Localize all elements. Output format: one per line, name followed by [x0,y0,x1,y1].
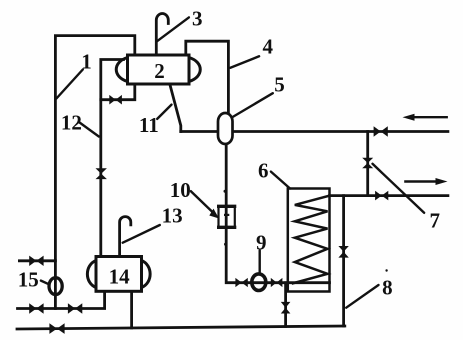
svg-text:5: 5 [274,72,285,96]
svg-text:8: 8 [382,276,393,300]
svg-text:13: 13 [162,204,183,228]
svg-text:1: 1 [81,50,92,74]
svg-text:7: 7 [429,208,440,232]
svg-text:10: 10 [170,178,191,202]
svg-text:9: 9 [256,230,267,254]
svg-text:11: 11 [139,113,159,137]
svg-text:6: 6 [258,158,269,182]
svg-text:4: 4 [262,35,273,59]
svg-text:15: 15 [18,268,39,292]
svg-text:12: 12 [61,110,82,134]
svg-text:14: 14 [109,264,131,288]
svg-text:3: 3 [192,6,203,30]
svg-text:2: 2 [154,59,165,83]
